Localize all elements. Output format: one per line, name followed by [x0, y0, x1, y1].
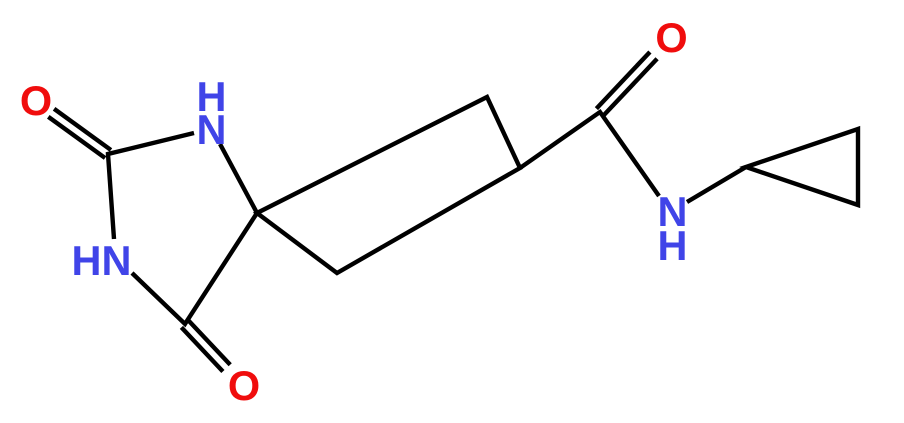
svg-text:O: O [655, 14, 687, 61]
wire: N-cyclopropyl C1 bond [687, 167, 746, 202]
wire: C4=O4 double bond line a [189, 321, 231, 365]
svg-text:H: H [197, 73, 227, 120]
svg-text:HN: HN [72, 237, 132, 284]
svg-text:O: O [20, 77, 52, 124]
wire: N1-C5 bond [220, 144, 257, 213]
wire: cyclohexane ring C5-C6-C7-C8-C9-C10 [257, 97, 520, 273]
wire: C4=O4 double bond line b [181, 327, 223, 371]
wire: N1-C2-N3 bonds [108, 133, 194, 239]
wire: amide C=O double bond line a [604, 59, 658, 116]
wire: N3-C4-C5 bonds [132, 213, 257, 324]
wire: C2=O1 double bond line b [48, 117, 105, 158]
wire: C2=O1 double bond line a [54, 109, 111, 150]
wire: amide C=O double bond line b [596, 52, 650, 109]
svg-text:O: O [228, 362, 260, 409]
svg-text:H: H [658, 222, 688, 269]
wire: cyclopropane ring [746, 129, 858, 205]
wire: C8-amideC-N bonds [520, 112, 659, 196]
